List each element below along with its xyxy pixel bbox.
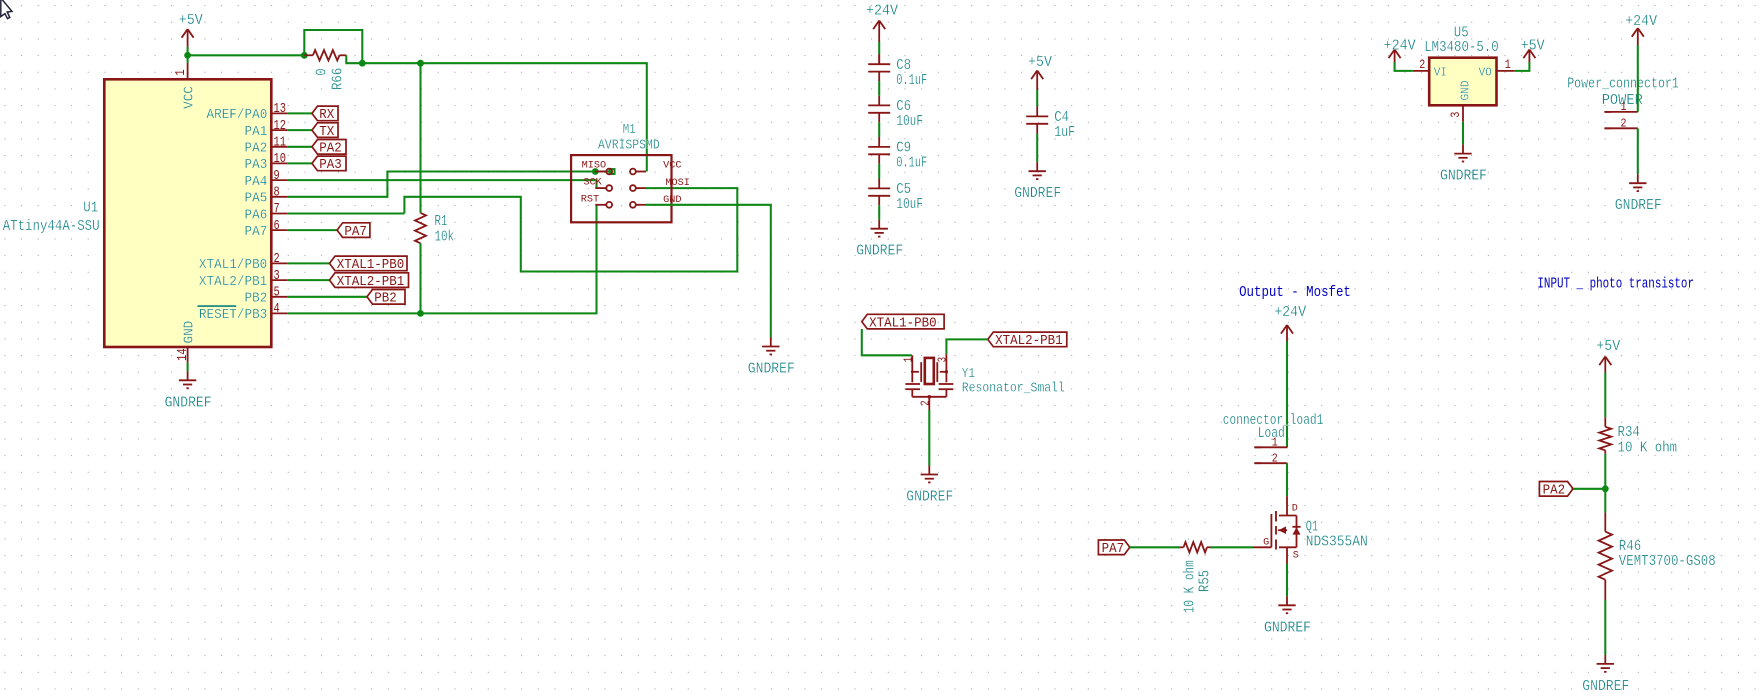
svg-text:10uF: 10uF	[896, 196, 923, 213]
svg-text:MOSI: MOSI	[665, 178, 690, 189]
svg-text:R1: R1	[435, 213, 448, 230]
svg-text:GNDREF: GNDREF	[1264, 619, 1311, 636]
svg-text:Resonator_Small: Resonator_Small	[962, 381, 1065, 397]
svg-text:INPUT _ photo transistor: INPUT _ photo transistor	[1537, 276, 1694, 293]
svg-text:R55: R55	[1197, 570, 1214, 592]
svg-text:GNDREF: GNDREF	[1615, 197, 1662, 214]
svg-text:PB2: PB2	[374, 291, 397, 307]
svg-text:14: 14	[175, 348, 191, 361]
svg-text:Y1: Y1	[962, 366, 975, 382]
svg-text:10k: 10k	[435, 229, 455, 246]
svg-text:PA5: PA5	[245, 191, 268, 207]
svg-text:GND: GND	[182, 321, 198, 344]
svg-text:Output - Mosfet: Output - Mosfet	[1239, 284, 1351, 301]
svg-text:2: 2	[1272, 452, 1278, 466]
svg-text:6: 6	[274, 218, 280, 234]
svg-text:PA2: PA2	[1543, 483, 1566, 499]
svg-text:PA3: PA3	[245, 157, 268, 173]
svg-text:+24V: +24V	[1625, 13, 1657, 30]
svg-text:PA2: PA2	[319, 141, 342, 157]
svg-text:10: 10	[274, 151, 287, 167]
svg-text:8: 8	[274, 185, 280, 201]
svg-text:VCC: VCC	[663, 160, 681, 171]
svg-text:GNDREF: GNDREF	[906, 489, 953, 506]
svg-text:RX: RX	[319, 107, 335, 123]
svg-text:2: 2	[918, 400, 932, 406]
svg-text:PA6: PA6	[245, 207, 268, 223]
svg-text:PA7: PA7	[1102, 541, 1125, 557]
svg-text:Power_connector1: Power_connector1	[1567, 75, 1679, 92]
svg-text:MISO: MISO	[582, 160, 607, 171]
svg-text:PA1: PA1	[245, 124, 268, 140]
svg-text:TX: TX	[319, 124, 335, 140]
svg-text:+5V: +5V	[1521, 37, 1545, 54]
svg-text:+24V: +24V	[1274, 304, 1306, 321]
svg-text:5: 5	[274, 285, 280, 301]
svg-text:VCC: VCC	[182, 86, 198, 109]
svg-text:VEMT3700-GS08: VEMT3700-GS08	[1619, 553, 1716, 570]
svg-text:PA2: PA2	[245, 141, 268, 157]
svg-text:XTAL2-PB1: XTAL2-PB1	[337, 274, 405, 290]
svg-text:XTAL2-PB1: XTAL2-PB1	[995, 333, 1063, 349]
svg-text:3: 3	[274, 268, 280, 284]
svg-text:+5V: +5V	[1596, 338, 1620, 355]
svg-text:+24V: +24V	[1384, 37, 1416, 54]
svg-text:4: 4	[274, 301, 280, 317]
svg-text:GNDREF: GNDREF	[1440, 168, 1487, 185]
svg-text:AVRISPSMD: AVRISPSMD	[598, 138, 660, 153]
svg-text:XTAL1/PB0: XTAL1/PB0	[199, 257, 267, 273]
svg-text:9: 9	[274, 168, 280, 184]
svg-text:10uF: 10uF	[896, 113, 923, 130]
svg-text:1uF: 1uF	[1054, 124, 1075, 141]
svg-text:NDS355AN: NDS355AN	[1306, 534, 1368, 551]
svg-text:PB2: PB2	[245, 291, 268, 307]
svg-text:ATtiny44A-SSU: ATtiny44A-SSU	[3, 218, 100, 235]
svg-text:VO: VO	[1479, 65, 1492, 79]
svg-text:VI: VI	[1434, 65, 1447, 79]
svg-text:PA4: PA4	[245, 174, 268, 190]
svg-text:GNDREF: GNDREF	[748, 361, 795, 378]
svg-text:3: 3	[1448, 112, 1463, 118]
svg-text:1: 1	[1505, 57, 1511, 72]
svg-text:+5V: +5V	[1028, 54, 1052, 71]
svg-text:0.1uF: 0.1uF	[896, 155, 927, 172]
svg-text:12: 12	[274, 118, 287, 134]
svg-text:2: 2	[1419, 57, 1425, 72]
svg-text:U1: U1	[83, 199, 98, 216]
svg-text:RST: RST	[581, 195, 599, 206]
svg-text:1: 1	[1621, 100, 1627, 114]
svg-text:XTAL2/PB1: XTAL2/PB1	[199, 274, 267, 290]
svg-text:GNDREF: GNDREF	[1582, 678, 1629, 695]
svg-text:GND: GND	[1458, 81, 1472, 101]
svg-text:0.1uF: 0.1uF	[896, 72, 927, 89]
svg-text:AREF/PA0: AREF/PA0	[207, 107, 268, 123]
svg-text:10 K ohm: 10 K ohm	[1618, 439, 1678, 456]
svg-text:GNDREF: GNDREF	[856, 243, 903, 260]
svg-text:GNDREF: GNDREF	[165, 394, 212, 411]
svg-text:XTAL1-PB0: XTAL1-PB0	[869, 315, 937, 331]
svg-text:PA3: PA3	[319, 157, 342, 173]
svg-text:S: S	[1293, 551, 1299, 562]
svg-text:+5V: +5V	[179, 12, 203, 29]
svg-text:RESET/PB3: RESET/PB3	[199, 307, 267, 323]
svg-text:13: 13	[274, 101, 287, 117]
svg-text:11: 11	[274, 135, 287, 151]
svg-text:PA7: PA7	[245, 224, 268, 240]
svg-text:+24V: +24V	[866, 2, 898, 19]
svg-text:7: 7	[274, 201, 280, 217]
svg-text:2: 2	[1621, 117, 1627, 131]
svg-text:D: D	[1292, 504, 1298, 515]
svg-text:1: 1	[173, 69, 189, 75]
svg-text:0: 0	[314, 68, 331, 75]
svg-text:M1: M1	[623, 123, 636, 138]
svg-text:3: 3	[936, 357, 950, 363]
svg-text:GNDREF: GNDREF	[1014, 185, 1061, 202]
svg-text:1: 1	[1272, 436, 1278, 450]
svg-text:XTAL1-PB0: XTAL1-PB0	[337, 257, 405, 273]
svg-text:1: 1	[902, 357, 916, 363]
svg-text:G: G	[1263, 538, 1269, 549]
svg-text:LM3480-5.0: LM3480-5.0	[1424, 39, 1499, 56]
svg-text:R66: R66	[329, 68, 346, 90]
svg-text:SCK: SCK	[583, 177, 601, 188]
svg-text:PA7: PA7	[344, 224, 367, 240]
svg-text:2: 2	[274, 251, 280, 267]
